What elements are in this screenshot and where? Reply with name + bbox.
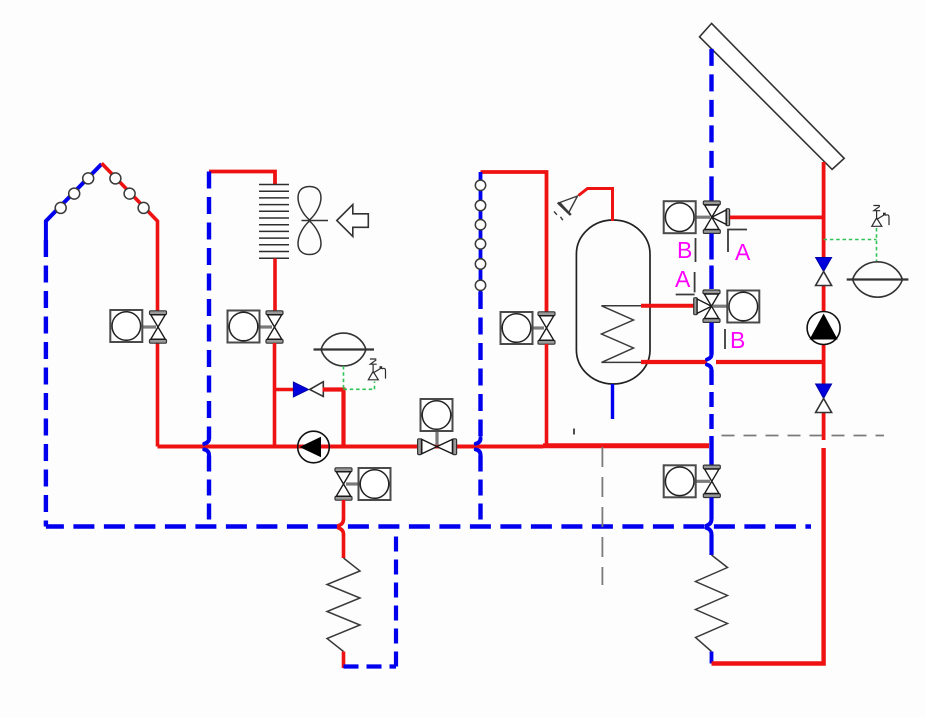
wire: church left return slope (blue) — [46, 164, 102, 240]
valve V2 — [228, 311, 284, 344]
svg-text:A: A — [735, 239, 751, 265]
svg-text:A: A — [675, 266, 691, 292]
junction hop: red at (343.5,525.5) — [339, 519, 344, 535]
pump P2 — [807, 312, 840, 345]
wire: blue return of R1 — [344, 527, 397, 667]
fan — [298, 187, 328, 255]
radiator R1 — [327, 558, 360, 652]
wire: red riser middle — [822, 286, 826, 385]
wire: main supply horizontal thick right part — [543, 443, 709, 448]
wire: circuit2 top red corner — [209, 172, 275, 186]
mixing valve MV1 — [664, 201, 730, 233]
gray dashed vertical — [601, 447, 603, 585]
check valve CV1 — [293, 382, 323, 397]
wire: red below valve V1 to main line — [156, 343, 160, 447]
junction hop: blue at (209,446.5) — [204, 439, 209, 456]
wire: blue radiator R2 bottom stub — [710, 652, 714, 664]
wire: red hop to radiator R1 — [342, 535, 346, 559]
wire: red below V2 to main — [273, 343, 277, 448]
valve V4 — [501, 312, 556, 344]
valve V3 — [335, 468, 391, 500]
wire: red radiator bottom stub — [342, 652, 346, 669]
wire: blue below MV2 to hop — [709, 323, 713, 355]
check valve CV3 — [816, 384, 832, 413]
wire: blue dashed below hop to V6 — [709, 370, 713, 466]
wire: red bypass branch — [275, 388, 295, 391]
tank coil — [602, 306, 644, 363]
radiator R2 — [696, 555, 728, 652]
wire: blue hop to radiator R2 — [709, 535, 713, 556]
junction hop: blue at (711.5,525.5) — [707, 519, 712, 535]
wire: circuit3 blue dashed mid — [478, 292, 482, 439]
valve V6 — [664, 465, 721, 497]
wire: circuit3 blue dashed lower — [478, 456, 482, 527]
node: church slope circles left — [55, 173, 93, 214]
gray dashed horizontal — [722, 435, 885, 437]
wire: solar red riser top — [822, 162, 826, 257]
wire: blue between MV1 and MV2 — [709, 234, 713, 290]
heat exchanger fins — [259, 185, 289, 259]
wire: circuit2 blue return dashed lower — [207, 456, 211, 527]
label A (MV1) — [728, 230, 751, 266]
pump P1 — [298, 431, 330, 463]
wire: tank bottom blue stub — [611, 384, 614, 419]
mixing valve MV2 — [694, 290, 760, 323]
sensor glyph G2 — [872, 206, 889, 227]
solar collector — [700, 23, 845, 169]
wire: red V3 down to hop — [342, 500, 346, 519]
wire: blue below V6 to hop — [709, 498, 713, 520]
wire: red bottom right corner — [712, 448, 824, 664]
wire: circuit3 top red corner — [481, 172, 547, 312]
wire: church right supply slope (red) — [102, 163, 158, 311]
wire: circuit2 blue return dashed upper — [207, 172, 211, 440]
node: church slope circles right — [110, 173, 149, 214]
wire: red tank bottom line to riser — [641, 360, 824, 364]
wire: red bypass to riser — [323, 388, 344, 449]
wire: church left return vertical dashed — [44, 240, 48, 527]
svg-text:B: B — [677, 237, 692, 263]
valve V1 — [110, 310, 166, 343]
wire: solar blue dashed down — [709, 49, 713, 202]
wire: tank top red to nozzle — [579, 189, 613, 222]
wire: red tank coil top to MV2 — [641, 304, 695, 308]
green control line left — [344, 366, 375, 389]
tank — [576, 220, 650, 384]
wire: circuit3 blue bubbles column — [479, 172, 483, 292]
green control line right — [824, 228, 877, 261]
label B (MV1) — [677, 237, 696, 263]
air arrow — [337, 205, 369, 237]
wire: red below V4 to main — [545, 344, 549, 448]
junction hop: blue at (711.5,362) — [707, 355, 712, 371]
wire: red riser below CV3 — [822, 413, 826, 441]
expansion vessel E2 — [847, 262, 909, 297]
wire: red exchanger to valve V2 — [273, 259, 277, 312]
svg-text:B: B — [730, 327, 745, 353]
nozzle — [554, 196, 578, 220]
label A (MV2) — [675, 266, 695, 295]
expansion vessel E1 — [314, 333, 375, 366]
junction hop: blue at (480.5,446.5) — [476, 439, 481, 456]
node: bubble circles column — [475, 180, 485, 290]
wire: red MV1 to riser — [730, 215, 824, 219]
label B (MV2) — [725, 327, 745, 353]
sensor glyph G1 — [368, 359, 385, 380]
check valve CV2 — [816, 258, 832, 286]
wire: main supply horizontal left part — [158, 445, 544, 449]
gray tick — [573, 429, 575, 435]
wire: bottom blue dashed return main — [46, 524, 811, 528]
valve V5 — [418, 399, 457, 455]
